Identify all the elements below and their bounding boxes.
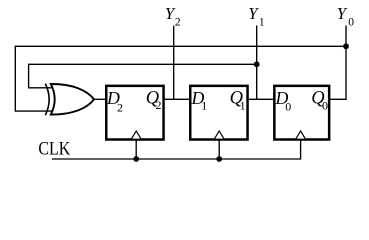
wire clock stub U2 [135, 140, 137, 159]
label Y0 [337, 4, 355, 29]
xor gate U1 [45, 84, 94, 116]
label Y1 [248, 4, 265, 29]
svg-text:2: 2 [117, 100, 123, 114]
wire Y2 tap from Q2-D1 net [173, 26, 175, 100]
wire Q2 to D1 [164, 98, 192, 100]
svg-text:Y: Y [337, 4, 348, 23]
label D2 [106, 88, 123, 114]
svg-text:Y: Y [248, 4, 259, 23]
label Y2 [165, 4, 181, 29]
wire XOR output to D2 input [94, 98, 107, 100]
svg-text:1: 1 [259, 17, 265, 29]
svg-text:CLK: CLK [38, 139, 70, 160]
flip-flop U2 box (D2/Q2) [106, 86, 163, 140]
flip-flop U3 box (D1/Q1) [190, 86, 247, 140]
junction dot Y1 feedback [254, 61, 260, 67]
label Q0 [311, 88, 328, 112]
flip-flop U4 box (D0/Q0) [274, 86, 329, 140]
label Q1 [230, 88, 246, 112]
clock triangle U3 [215, 131, 224, 139]
svg-text:0: 0 [322, 98, 328, 112]
clock triangle U2 [132, 131, 141, 139]
label D0 [275, 88, 292, 113]
svg-text:2: 2 [155, 98, 161, 112]
svg-text:0: 0 [348, 17, 354, 29]
wire outer feedback from Y0 net to XOR lower input [15, 46, 346, 111]
svg-text:2: 2 [175, 17, 181, 29]
svg-text:0: 0 [285, 99, 291, 113]
wire Q0 output up to Y0 [330, 26, 346, 100]
label D1 [191, 88, 208, 113]
wire clock stub U3 [218, 140, 220, 159]
clock triangle U4 [296, 131, 305, 139]
svg-text:1: 1 [240, 98, 246, 112]
wire inner feedback from Y1 net to XOR upper input [29, 64, 257, 88]
svg-text:1: 1 [201, 99, 207, 113]
junction dot CLK U3 [216, 156, 222, 162]
junction dot Y0 feedback [343, 43, 349, 49]
junction dot CLK U2 [133, 156, 139, 162]
label Q2 [146, 88, 162, 112]
wire CLK line to U4 clock [52, 140, 301, 159]
wire Y1 tap from Q1-D0 net [256, 26, 258, 100]
wire Q1 to D0 [248, 98, 276, 100]
